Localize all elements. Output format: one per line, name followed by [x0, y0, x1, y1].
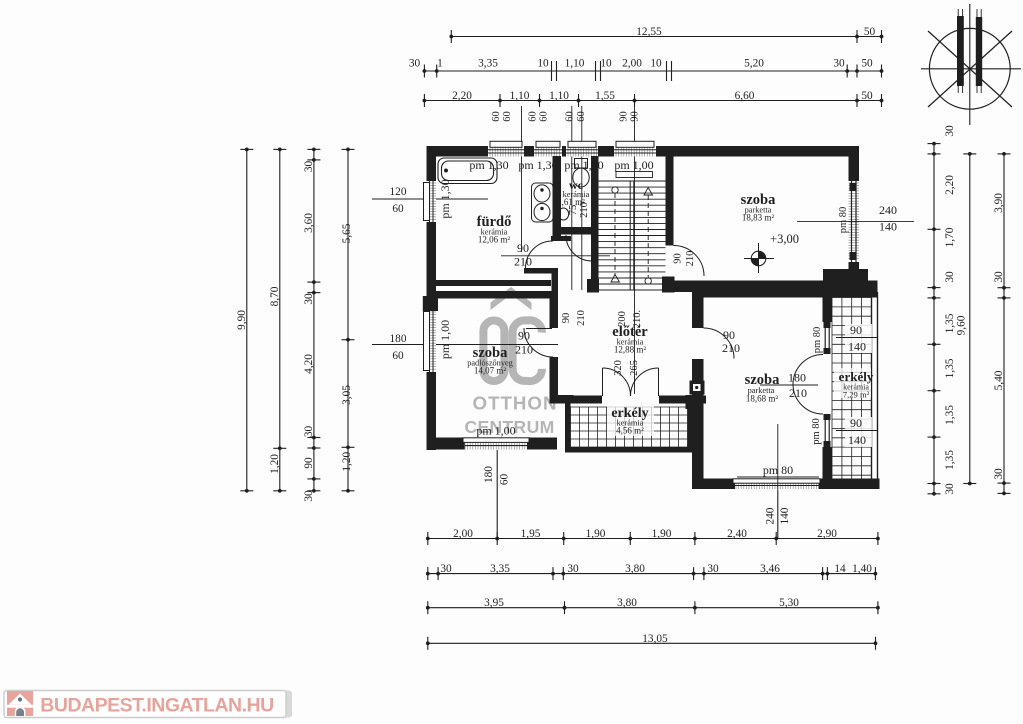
window dim 90/140 lower right erkély — [811, 416, 877, 447]
staircase walking line left — [611, 187, 620, 282]
előtér bottom wall left part — [558, 396, 602, 404]
svg-text:14: 14 — [834, 563, 846, 575]
room label előtér — [612, 324, 648, 355]
staircase center stringer — [630, 181, 634, 290]
sill height labels 60/60 90/90 — [491, 111, 641, 122]
svg-text:265: 265 — [629, 360, 640, 376]
bottom szoba bottom wall — [694, 479, 735, 490]
svg-text:90: 90 — [561, 313, 572, 324]
svg-text:50: 50 — [861, 90, 873, 102]
bottom dim row 3,95/3,80/5,30 — [426, 597, 880, 614]
hall to left szoba door arc — [524, 328, 553, 357]
svg-text:30: 30 — [303, 161, 315, 173]
door dim 90/210 hall-szoba horizontal — [515, 329, 533, 357]
bottom szoba left wall lower — [692, 359, 704, 489]
room label right erkély — [834, 368, 874, 400]
chimney block — [690, 381, 705, 395]
right erkély tile grid — [832, 298, 872, 479]
door dim 2.00/210 front door — [617, 310, 643, 328]
vertical leader lines from top dims — [522, 106, 635, 394]
svg-text:1,35: 1,35 — [944, 358, 956, 378]
fürdő door jamb L-wall — [524, 268, 558, 274]
right erkély parapet — [872, 292, 878, 479]
svg-text:240: 240 — [879, 203, 897, 217]
svg-text:pm 1,30: pm 1,30 — [469, 158, 508, 172]
leader line szoba window 180/60 — [372, 333, 558, 362]
svg-text:90: 90 — [517, 241, 529, 255]
bottom dim row 2,00/1,95/1,90/1,90/2,40/2,90 — [426, 528, 880, 545]
left dim col 5,65/3,05/1,20 — [341, 148, 355, 493]
szoba left bottom window — [463, 438, 529, 450]
svg-text:6,60: 6,60 — [735, 90, 755, 102]
svg-text:1,35: 1,35 — [944, 313, 956, 333]
right dim col 3,90/30/5,40/30 — [993, 152, 1011, 495]
svg-text:3,35: 3,35 — [478, 58, 498, 70]
svg-text:pm 1,30: pm 1,30 — [564, 158, 603, 172]
window callout 180/60 bottom left — [483, 450, 511, 538]
level benchmark +3,00 — [744, 243, 774, 273]
stairwell right wall — [666, 156, 674, 246]
north survey symbol — [921, 4, 1021, 125]
svg-text:50: 50 — [864, 26, 876, 38]
svg-text:210: 210 — [685, 251, 696, 267]
svg-text:3,80: 3,80 — [617, 597, 637, 609]
svg-text:OTTHON: OTTHON — [473, 393, 558, 414]
svg-text:5,65: 5,65 — [341, 223, 353, 243]
svg-text:210: 210 — [514, 255, 532, 269]
top szoba bottom wall — [666, 281, 878, 293]
svg-text:3,95: 3,95 — [484, 597, 504, 609]
svg-text:30: 30 — [944, 125, 956, 137]
bottom szoba to erkély double door arcs — [793, 355, 823, 415]
door dim 75/210 wc — [568, 202, 590, 218]
wc bottom wall — [561, 227, 592, 235]
svg-text:18,83 m²: 18,83 m² — [742, 213, 775, 223]
svg-text:pm 1,00: pm 1,00 — [614, 158, 653, 172]
svg-text:60: 60 — [539, 111, 550, 122]
left dim col 8,70/1,20 — [269, 148, 287, 493]
svg-text:1: 1 — [437, 58, 443, 70]
svg-text:180: 180 — [390, 333, 407, 345]
svg-text:90: 90 — [518, 329, 530, 343]
center erkély side walls and bottom parapet — [565, 404, 693, 453]
svg-text:1,20: 1,20 — [341, 451, 353, 471]
svg-text:90: 90 — [619, 111, 630, 122]
staircase treads — [599, 181, 666, 284]
staircase walking line right — [644, 188, 653, 285]
top wall windows — [488, 141, 656, 156]
svg-text:3,05: 3,05 — [341, 385, 353, 405]
svg-text:30: 30 — [567, 563, 579, 575]
fürdő door arc — [525, 241, 553, 269]
svg-text:30: 30 — [944, 483, 956, 495]
svg-text:30: 30 — [440, 563, 452, 575]
window callout 240/140 bottom — [765, 491, 792, 538]
svg-text:30: 30 — [303, 426, 315, 438]
svg-text:1,35: 1,35 — [944, 405, 956, 425]
svg-text:3,35: 3,35 — [490, 563, 510, 575]
svg-text:140: 140 — [848, 340, 866, 354]
svg-text:12,55: 12,55 — [636, 26, 662, 38]
svg-text:60: 60 — [528, 111, 539, 122]
wc left wall — [553, 156, 562, 241]
svg-text:pm 80: pm 80 — [812, 327, 823, 354]
right dim col 30/2,20/1,70/30/1,35x4/30 — [928, 125, 957, 496]
svg-text:+3,00: +3,00 — [770, 232, 799, 246]
svg-text:1,20: 1,20 — [269, 454, 281, 474]
door dim 180/210 erkély door — [760, 371, 818, 401]
watermark roof chevron — [491, 287, 532, 310]
svg-text:10: 10 — [600, 58, 612, 70]
svg-text:2,90: 2,90 — [817, 528, 837, 540]
leader line fürdő window 120/60 — [372, 186, 488, 215]
svg-text:60: 60 — [502, 111, 513, 122]
svg-text:pm 1,00: pm 1,00 — [476, 424, 515, 438]
parapet labels left wall — [438, 179, 452, 359]
top szoba right window — [849, 181, 860, 262]
svg-text:30: 30 — [707, 563, 719, 575]
stair hall to top szoba door arc — [674, 246, 705, 277]
hall left wall upper — [550, 291, 559, 328]
wc corner basin — [558, 208, 568, 220]
svg-text:90: 90 — [673, 253, 684, 264]
svg-text:210: 210 — [722, 341, 740, 355]
svg-text:2,20: 2,20 — [452, 90, 472, 102]
svg-text:30: 30 — [409, 58, 421, 70]
svg-text:2,00: 2,00 — [622, 58, 642, 70]
svg-text:8,70: 8,70 — [269, 286, 281, 306]
top outer wall — [427, 146, 860, 157]
svg-text:320: 320 — [613, 360, 624, 376]
svg-text:2,40: 2,40 — [727, 528, 747, 540]
svg-text:12,88 m²: 12,88 m² — [614, 345, 647, 355]
svg-text:1,95: 1,95 — [521, 528, 541, 540]
svg-text:60: 60 — [392, 350, 404, 362]
bottom szoba top wall — [692, 287, 878, 298]
svg-text:90: 90 — [850, 323, 862, 337]
svg-text:5,40: 5,40 — [993, 370, 1005, 390]
door dim 320/265 — [613, 360, 640, 376]
svg-text:3,60: 3,60 — [303, 213, 315, 233]
svg-text:7,29 m²: 7,29 m² — [843, 390, 870, 400]
svg-text:90: 90 — [630, 111, 641, 122]
center erkély tile grid — [571, 407, 688, 447]
svg-text:12,06 m²: 12,06 m² — [478, 235, 511, 245]
svg-text:140: 140 — [779, 507, 791, 524]
svg-text:1,70: 1,70 — [944, 227, 956, 247]
top szoba right wall — [849, 146, 860, 181]
svg-text:1,40: 1,40 — [852, 563, 872, 575]
bottom szoba bottom window pm 80 — [733, 479, 820, 490]
fürdő bottom wall — [427, 280, 552, 286]
window dim 90/140 upper right erkély — [812, 323, 877, 354]
svg-text:30: 30 — [303, 490, 315, 502]
svg-text:30: 30 — [303, 293, 315, 305]
svg-text:14,07 m²: 14,07 m² — [474, 366, 507, 376]
bottom szoba left wall upper — [692, 298, 704, 329]
svg-text:10: 10 — [650, 58, 662, 70]
svg-text:pm 1,30: pm 1,30 — [438, 179, 452, 218]
svg-text:2,61 m²: 2,61 m² — [557, 197, 585, 207]
svg-text:180: 180 — [788, 371, 806, 385]
svg-text:pm 80: pm 80 — [838, 207, 849, 234]
left wall pier block — [423, 296, 438, 311]
svg-text:140: 140 — [879, 220, 897, 234]
svg-text:90: 90 — [850, 416, 862, 430]
door dim 90/210 bottom szoba — [722, 328, 740, 355]
left outer wall — [427, 146, 437, 450]
svg-text:1,90: 1,90 — [586, 528, 606, 540]
svg-text:2,00: 2,00 — [453, 528, 473, 540]
svg-text:10: 10 — [537, 58, 549, 70]
svg-text:240: 240 — [765, 507, 777, 524]
bathtub — [438, 158, 497, 184]
hall to left szoba door leaf — [526, 328, 552, 330]
parapet labels top wall — [469, 158, 653, 172]
front double door arcs — [603, 368, 659, 396]
svg-text:90: 90 — [303, 457, 315, 469]
stairwell left wall — [591, 156, 599, 282]
svg-text:90: 90 — [723, 328, 735, 342]
left dim col 30/3,60/30/4,20/30/90/30 — [303, 148, 321, 502]
svg-text:9,60: 9,60 — [955, 315, 967, 335]
watermark OC letters — [483, 320, 542, 381]
logo bar background — [4, 691, 292, 718]
svg-text:3,90: 3,90 — [993, 193, 1005, 213]
előtér to bottom szoba door arc — [704, 328, 735, 359]
left dim col 9,90 — [236, 148, 254, 493]
svg-text:BUDAPEST.INGATLAN.HU: BUDAPEST.INGATLAN.HU — [40, 695, 273, 717]
svg-text:140: 140 — [848, 433, 866, 447]
hall bottom-left wall to balcony — [550, 395, 574, 404]
svg-text:1,35: 1,35 — [944, 450, 956, 470]
svg-text:60: 60 — [499, 474, 511, 486]
svg-text:180: 180 — [483, 466, 495, 483]
svg-text:30: 30 — [833, 58, 845, 70]
svg-text:120: 120 — [390, 186, 407, 198]
room label fürdő — [477, 214, 512, 245]
svg-text:9,90: 9,90 — [236, 310, 248, 330]
svg-text:60: 60 — [565, 111, 576, 122]
svg-text:60: 60 — [491, 111, 502, 122]
svg-text:1,90: 1,90 — [652, 528, 672, 540]
twin washbasins — [532, 183, 554, 222]
bottom dim row 30/3,35/30/3,80/30/3,46/14/1,40 — [426, 563, 877, 580]
svg-text:18,68 m²: 18,68 m² — [746, 394, 779, 404]
window dim 240/140 top right — [797, 203, 914, 234]
top dim row 2,20/1,10/1,10/1,55/6,60 — [423, 90, 884, 107]
svg-text:1,10: 1,10 — [565, 58, 585, 70]
svg-text:3,80: 3,80 — [625, 563, 645, 575]
bottom szoba right wall with windows and balcony door — [823, 298, 833, 479]
svg-text:1,55: 1,55 — [595, 90, 615, 102]
svg-text:5,20: 5,20 — [744, 58, 764, 70]
room label left szoba — [467, 345, 513, 376]
pm 80 label above bottom window — [737, 424, 819, 491]
right dim col 9,60 — [955, 152, 976, 485]
left wall windows — [424, 181, 437, 372]
svg-text:60: 60 — [392, 203, 404, 215]
logo house icon — [7, 691, 33, 716]
room label top szoba — [741, 192, 776, 223]
svg-text:2,20: 2,20 — [944, 175, 956, 195]
svg-text:pm 1,00: pm 1,00 — [438, 320, 452, 359]
door dim 90/210 fürdő — [501, 241, 610, 269]
szoba left top wall — [427, 291, 554, 299]
svg-text:3,46: 3,46 — [760, 563, 780, 575]
svg-text:210: 210 — [789, 386, 807, 400]
north symbol hatched bars — [957, 9, 982, 93]
room label center erkély — [607, 405, 654, 436]
svg-text:210: 210 — [576, 310, 587, 326]
top dim row 30/3,35/1,10/2,00/5,20 — [409, 58, 884, 82]
door dim 90/210 stairhall-top szoba — [673, 251, 697, 267]
szoba left bottom wall — [427, 438, 466, 450]
wc toilet — [573, 159, 589, 187]
staircase top landing rect — [616, 172, 653, 178]
svg-text:30: 30 — [993, 468, 1005, 480]
svg-text:13,05: 13,05 — [642, 633, 668, 645]
svg-text:4,20: 4,20 — [303, 354, 315, 374]
wc door arc — [566, 235, 592, 261]
hall left wall lower — [550, 357, 559, 395]
svg-text:210: 210 — [515, 343, 533, 357]
előtér bottom wall right part — [659, 396, 706, 404]
svg-text:50: 50 — [861, 58, 873, 70]
svg-text:4,56 m²: 4,56 m² — [616, 426, 644, 436]
svg-text:30: 30 — [993, 271, 1005, 283]
room label wc — [557, 178, 590, 207]
svg-text:1,10: 1,10 — [549, 90, 569, 102]
svg-text:5,30: 5,30 — [779, 597, 799, 609]
room label bottom szoba — [745, 372, 780, 404]
staircase bottom edge — [599, 289, 666, 291]
svg-text:30: 30 — [944, 271, 956, 283]
bottom dim row 13,05 — [426, 633, 877, 650]
svg-text:pm 1,30: pm 1,30 — [518, 158, 557, 172]
svg-text:pm 80: pm 80 — [811, 418, 822, 445]
door dim 90/210 hall-szoba vertical — [561, 310, 587, 326]
svg-text:1,10: 1,10 — [510, 90, 530, 102]
top dim row 12,55 — [449, 26, 883, 43]
